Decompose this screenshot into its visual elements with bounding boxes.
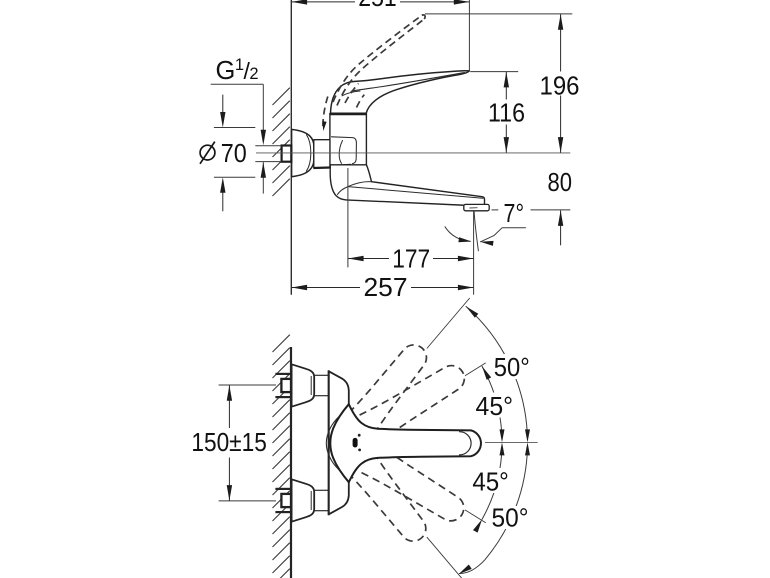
svg-text:177: 177 xyxy=(392,244,430,274)
7 deg arc xyxy=(445,227,470,242)
extension line at solid lever tip level xyxy=(470,71,518,73)
label 50 deg lower xyxy=(489,506,531,529)
dimension 177 extension line (valve axis, vertical) xyxy=(347,168,349,267)
dimension 257 xyxy=(292,287,360,289)
50 deg arc (lower) xyxy=(460,447,528,574)
dimension 196 extension line (raised lever tip level) xyxy=(425,13,572,15)
nipple extension lines xyxy=(255,145,281,147)
centerline (plan view) xyxy=(485,441,538,443)
svg-text:7°: 7° xyxy=(504,198,525,228)
G1/2 nipple square xyxy=(282,146,292,162)
svg-text:257: 257 xyxy=(364,272,408,302)
45 deg arc outer arrows xyxy=(482,366,491,380)
wall line (side view) xyxy=(290,0,292,295)
45 deg arc (lower) xyxy=(482,446,502,519)
dimension 177 xyxy=(348,258,389,260)
label 45 deg lower xyxy=(470,468,512,493)
extension line at lever raised tip (vertical) xyxy=(468,0,470,71)
svg-text:45°: 45° xyxy=(472,467,509,497)
lever end cap line (plan view) xyxy=(460,432,472,455)
diameter 70 extension lines xyxy=(214,127,255,129)
dimension 196 xyxy=(560,14,562,152)
lower mounting union (plan view) xyxy=(275,488,290,490)
upper mounting union (plan view) xyxy=(275,373,290,375)
50 deg arc (upper) xyxy=(466,307,527,440)
dimension 177 extension line (aerator axis, vertical) xyxy=(473,211,475,295)
wall hatching (side view) xyxy=(273,88,290,196)
svg-text:150±15: 150±15 xyxy=(191,427,267,457)
dimension 150 +/- 15 xyxy=(228,385,230,428)
escutcheon rosette (side view) xyxy=(292,129,314,176)
wall hatching (plan view) xyxy=(273,335,290,578)
cartridge dome rings (plan view) xyxy=(326,412,344,474)
svg-text:80: 80 xyxy=(548,167,573,197)
7 deg leader xyxy=(481,228,526,242)
water stream line (7 deg) xyxy=(474,211,478,251)
wall line (plan view) xyxy=(290,347,292,578)
lever (solid, side view) xyxy=(331,71,470,113)
dimension dia 70 xyxy=(222,95,224,113)
connection nut (side view) xyxy=(314,140,330,168)
svg-text:196: 196 xyxy=(540,71,580,101)
svg-text:G1/2: G1/2 xyxy=(216,56,259,85)
dimension 150 extension lines xyxy=(219,384,276,386)
G 1/2 leader xyxy=(211,83,264,85)
label 50 deg upper xyxy=(492,354,532,379)
45 deg arc (upper) xyxy=(482,366,502,439)
temperature indicator dot xyxy=(353,438,358,448)
arc arrows at centerline xyxy=(500,429,505,442)
svg-text:116: 116 xyxy=(488,97,525,127)
swivel direction lines xyxy=(465,363,486,376)
raised lever (dashed, side view) xyxy=(323,15,425,129)
50 deg arc outer arrows xyxy=(466,307,478,318)
lever (solid, plan view) xyxy=(330,404,481,482)
faucet body (side view) xyxy=(330,114,367,166)
dimension 116 xyxy=(505,72,507,153)
swivel lever positions (dashed) xyxy=(349,338,435,434)
svg-text:70: 70 xyxy=(221,138,247,168)
dimension 80 xyxy=(560,210,562,245)
spout (side view) xyxy=(330,165,484,206)
svg-text:251: 251 xyxy=(358,0,397,12)
svg-text:50°: 50° xyxy=(494,352,530,382)
centerline axis (side view) xyxy=(256,152,570,154)
faucet body (plan view) xyxy=(329,371,349,514)
svg-text:45°: 45° xyxy=(476,391,514,421)
diameter symbol xyxy=(200,145,215,160)
dimension 251 xyxy=(292,1,355,3)
label 45 deg upper xyxy=(473,393,516,418)
aerator at spout tip xyxy=(464,204,489,210)
aerator level line (7 deg reference) xyxy=(492,209,499,211)
svg-text:50°: 50° xyxy=(492,502,529,532)
